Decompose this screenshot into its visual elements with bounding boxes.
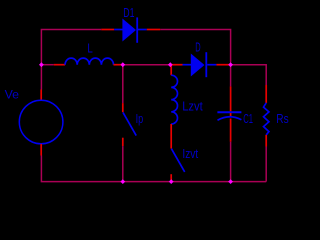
svg-text:Ve: Ve: [5, 90, 19, 102]
wire C1 to bottom rail: [230, 142, 232, 182]
wire top rail left segment: [41, 30, 101, 65]
svg-text:Ip: Ip: [136, 111, 144, 126]
bottom rail junction dot at Izvt: [169, 179, 174, 184]
node D junction dot (D cathode / C1 / Rs): [228, 62, 233, 67]
label Ve: [5, 90, 19, 102]
diode D cathode lead (red): [216, 64, 230, 66]
wire Rs to bottom rail: [265, 147, 267, 182]
label Ip: [136, 111, 144, 126]
wire left vertical upper: [40, 65, 42, 90]
inductor Lzvt: [171, 75, 177, 124]
diode D anode lead (red): [170, 64, 182, 66]
svg-text:L: L: [87, 41, 92, 56]
label Rs: [276, 111, 289, 126]
inductor Lzvt top lead (red): [170, 65, 172, 76]
svg-text:D1: D1: [123, 5, 134, 20]
switch Ip bottom pin (red): [122, 138, 124, 146]
label Izvt: [182, 146, 198, 161]
label C1: [243, 111, 253, 126]
svg-text:Lzvt: Lzvt: [182, 99, 203, 114]
wire between node B and node C: [123, 64, 171, 66]
wire left vertical lower + bottom rail: [41, 156, 266, 182]
wire node D down to C1: [230, 65, 232, 87]
bottom rail junction dot at C1: [228, 179, 233, 184]
switch Ip: [123, 112, 136, 135]
label D: [195, 39, 200, 54]
switch Izvt: [171, 149, 184, 172]
node A junction dot (left rail): [39, 62, 44, 67]
inductor L right lead (red): [114, 64, 123, 66]
label L: [87, 41, 92, 56]
svg-text:Rs: Rs: [276, 111, 289, 126]
svg-text:C1: C1: [243, 111, 253, 126]
voltage source Ve: [19, 100, 63, 144]
diode D1: [114, 17, 147, 42]
resistor Rs: [264, 103, 269, 135]
node B junction dot (L / Ip): [120, 62, 125, 67]
wire node D to Rs branch: [231, 65, 267, 85]
capacitor C1 top lead (red): [230, 86, 232, 111]
switch Ip top pin (red): [122, 103, 124, 112]
resistor Rs bottom lead (red): [265, 135, 267, 147]
voltage source Ve bottom lead (red): [40, 144, 42, 156]
node C junction dot (D anode / Lzvt): [168, 62, 173, 67]
capacitor C1: [217, 112, 241, 120]
resistor Rs top lead (red): [265, 85, 267, 103]
wire second rail from left vertical: [41, 64, 53, 66]
wire top rail right segment: [160, 30, 230, 63]
bottom rail junction dot at Ip: [120, 179, 125, 184]
inductor L left lead (red): [54, 64, 65, 66]
diode D: [183, 52, 217, 77]
wire Lzvt to Izvt (red): [170, 124, 172, 149]
voltage source Ve top lead (red): [40, 90, 42, 101]
switch Ip top lead wire: [122, 65, 124, 103]
svg-text:Izvt: Izvt: [182, 146, 198, 161]
diode D1 anode lead (red): [101, 29, 114, 31]
label D1: [123, 5, 134, 20]
wire Ip to bottom rail: [122, 146, 124, 182]
capacitor C1 bottom lead (red): [230, 119, 232, 142]
label Lzvt: [182, 99, 203, 114]
diode D1 cathode lead (red): [147, 29, 161, 31]
switch Izvt bottom pin (red): [170, 174, 172, 181]
svg-text:D: D: [195, 39, 200, 54]
inductor L: [65, 58, 113, 65]
